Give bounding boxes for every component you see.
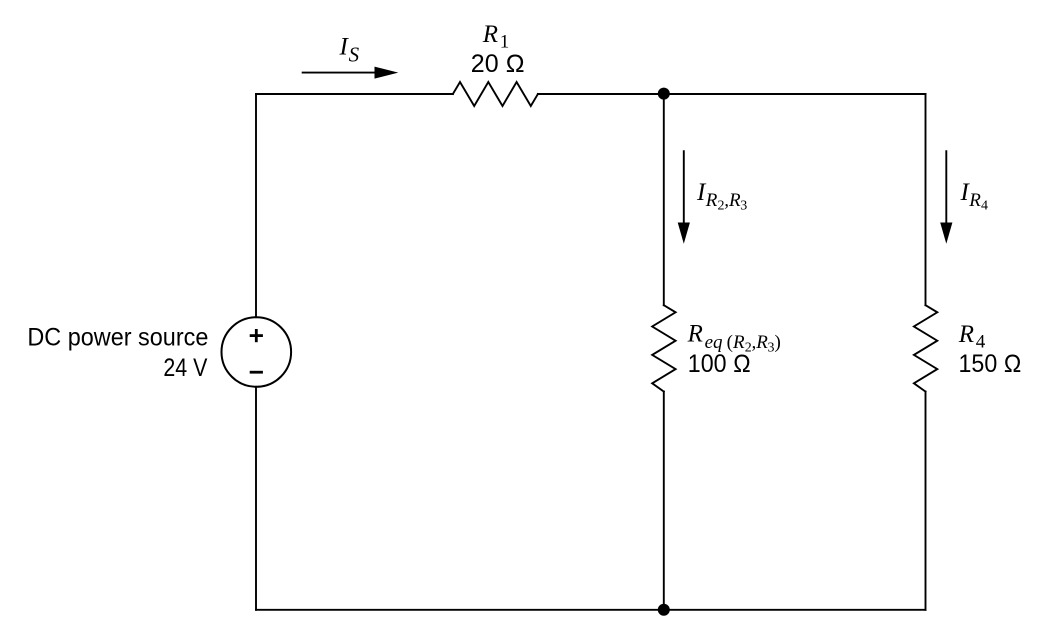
svg-text:DC power source: DC power source bbox=[27, 324, 208, 352]
svg-text:4: 4 bbox=[981, 199, 988, 214]
svg-text:R: R bbox=[958, 321, 974, 348]
svg-text:20 Ω: 20 Ω bbox=[471, 50, 525, 78]
svg-text:24 V: 24 V bbox=[163, 354, 207, 382]
svg-text:): ) bbox=[775, 332, 781, 353]
svg-text:S: S bbox=[349, 43, 360, 67]
svg-text:R: R bbox=[705, 190, 718, 211]
svg-text:R: R bbox=[687, 320, 703, 347]
svg-text:100 Ω: 100 Ω bbox=[688, 350, 751, 378]
svg-text:R: R bbox=[482, 21, 498, 48]
svg-text:,R: ,R bbox=[752, 332, 769, 353]
svg-text:R: R bbox=[968, 190, 981, 211]
svg-text:,R: ,R bbox=[724, 190, 741, 211]
svg-text:3: 3 bbox=[740, 199, 747, 214]
svg-text:150 Ω: 150 Ω bbox=[959, 350, 1022, 378]
svg-text:3: 3 bbox=[768, 341, 775, 356]
